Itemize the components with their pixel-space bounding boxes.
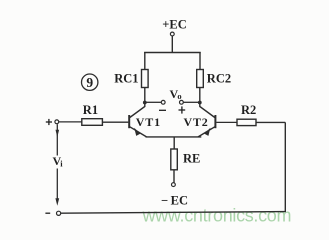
label Vo [170, 87, 182, 101]
wire top rail to RC2 [199, 52, 201, 70]
svg-text:R1: R1 [83, 103, 98, 117]
transistor VT1 base bar [128, 115, 130, 128]
svg-text:− EC: − EC [161, 194, 188, 208]
junction node A (VT1 collector) [143, 101, 147, 105]
+EC supply terminal [170, 32, 174, 36]
input terminal bottom [57, 211, 61, 215]
resistor R2 [237, 119, 256, 125]
svg-text:R2: R2 [241, 103, 256, 117]
transistor VT1 collector lead [130, 103, 145, 118]
label -EC [161, 194, 188, 208]
label Vi [53, 154, 64, 169]
output terminal left [161, 100, 165, 104]
label VT1 [136, 115, 161, 129]
svg-text:VT1: VT1 [136, 115, 161, 129]
wire RC2 to collector node B [199, 88, 201, 104]
label RE [183, 152, 200, 166]
wire node A to left output terminal [146, 101, 162, 103]
label R1 [83, 103, 98, 117]
wire VT2 base to R2 [216, 121, 237, 123]
svg-text:o: o [177, 91, 181, 101]
input terminal top [55, 120, 59, 124]
input minus sign [45, 212, 50, 214]
Vi arrow line lower with arrowhead [55, 169, 59, 206]
wire input terminal to R1 [59, 121, 82, 123]
emitter rail wire [146, 136, 202, 138]
-EC terminal [172, 183, 176, 187]
label RC2 [207, 72, 231, 86]
label RC1 [114, 72, 138, 86]
svg-text:RE: RE [183, 152, 200, 166]
svg-text:www.cntronics.com: www.cntronics.com [142, 206, 292, 226]
svg-text:9: 9 [86, 75, 93, 90]
wire emitter node to RE [173, 137, 175, 150]
wire +EC terminal to top rail [171, 36, 173, 53]
Vi arrow line upper [56, 124, 60, 155]
output polarity plus [179, 106, 186, 113]
svg-text:+EC: +EC [162, 18, 187, 32]
output terminal right [180, 100, 184, 104]
resistor RE [171, 149, 178, 170]
transistor VT2 base bar [214, 115, 216, 128]
transistor VT2 collector lead [200, 103, 215, 118]
figure number 9 (circled) [82, 74, 98, 90]
wire right vertical down to bottom rail [284, 122, 286, 212]
input plus sign [46, 119, 52, 125]
label R2 [241, 103, 256, 117]
resistor RC2 [197, 70, 204, 88]
wire right output terminal to node B [183, 101, 199, 103]
svg-text:VT2: VT2 [184, 115, 209, 129]
svg-text:RC2: RC2 [207, 72, 231, 86]
wire R2 to right corner [256, 121, 285, 123]
junction node B (VT2 collector) [198, 101, 202, 105]
transistor VT2 emitter lead with arrow [198, 127, 215, 137]
svg-text:RC1: RC1 [114, 72, 138, 86]
wire RE to -EC terminal [173, 170, 175, 183]
svg-text:i: i [60, 159, 63, 169]
transistor VT1 emitter lead with arrow [130, 127, 147, 137]
+EC supply label [162, 18, 187, 32]
resistor R1 [82, 119, 103, 126]
wire top rail to RC1 [144, 52, 146, 70]
wire RC1 to collector node A [144, 88, 146, 104]
wire top rail [144, 52, 201, 54]
output polarity minus [159, 109, 166, 111]
wire bottom rail [61, 212, 285, 214]
resistor RC1 [142, 70, 149, 88]
wire R1 to VT1 base [102, 121, 128, 123]
label VT2 [184, 115, 209, 129]
watermark www.cntronics.com [142, 206, 292, 226]
